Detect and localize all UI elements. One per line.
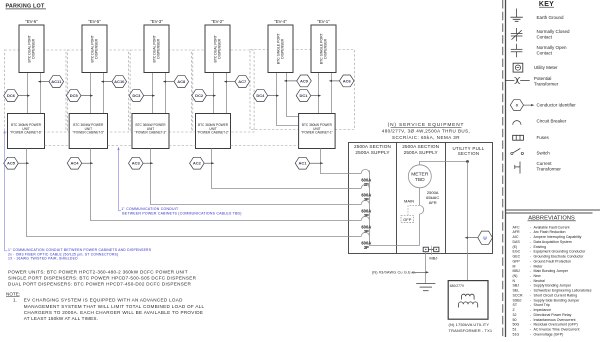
transformer TX1 enclosure bbox=[448, 281, 488, 320]
svg-text:GFP: GFP bbox=[403, 217, 412, 222]
svg-text:Current: Current bbox=[537, 161, 553, 166]
svg-text:2500A SUPPLY: 2500A SUPPLY bbox=[355, 150, 390, 155]
svg-text:2x - OM3 FIBER OPTIC CABLE (50: 2x - OM3 FIBER OPTIC CABLE (50/125 μm, S… bbox=[8, 252, 118, 256]
svg-text:AC3: AC3 bbox=[132, 161, 141, 166]
switchboard section divider 2 bbox=[445, 143, 447, 254]
svg-text:DUAL PORT DISPENSERS: BTC POWE: DUAL PORT DISPENSERS: BTC POWER HPCD7-45… bbox=[8, 282, 191, 287]
svg-text:Arc Flash Reduction: Arc Flash Reduction bbox=[534, 230, 566, 234]
svg-text:Ground Fault Protection: Ground Fault Protection bbox=[534, 259, 572, 263]
svg-text:Data Acquisition System: Data Acquisition System bbox=[534, 240, 572, 244]
power unit cabinet 6 bbox=[8, 114, 45, 149]
svg-text:Normally Closed: Normally Closed bbox=[537, 29, 571, 34]
key normally open contact bbox=[516, 44, 518, 49]
svg-text:SCCR: SCCR bbox=[513, 294, 523, 298]
svg-text:AC1: AC1 bbox=[298, 161, 307, 166]
svg-text:DC5: DC5 bbox=[70, 93, 79, 98]
svg-text:EGC: EGC bbox=[513, 250, 521, 254]
wire feeder to service bbox=[151, 149, 349, 205]
svg-text:DC4: DC4 bbox=[256, 93, 265, 98]
svg-text:"EV-6": "EV-6" bbox=[25, 19, 38, 24]
svg-text:AC5: AC5 bbox=[7, 161, 16, 166]
KEY panel border bbox=[505, 0, 507, 337]
svg-text:SCCR/AIC: 65kA, NEMA 3R: SCCR/AIC: 65kA, NEMA 3R bbox=[392, 135, 460, 140]
svg-text:DISPENSER: DISPENSER bbox=[218, 38, 222, 58]
ground bus square bbox=[434, 247, 439, 252]
communication conduit riser 1 (blue) bbox=[4, 133, 6, 250]
svg-text:AC9: AC9 bbox=[300, 78, 309, 83]
power unit cabinet 2 bbox=[196, 114, 231, 149]
dispenser "EV-5" (BTC dual port) bbox=[82, 25, 107, 73]
svg-text:TBD: TBD bbox=[415, 177, 425, 183]
node AC1 conductor identifier bbox=[295, 157, 310, 169]
svg-text:Grounding Electrode Conductor: Grounding Electrode Conductor bbox=[534, 255, 585, 259]
svg-text:"POWER CABINET-5": "POWER CABINET-5" bbox=[72, 131, 104, 135]
svg-text:EV CHARGING SYSTEM IS EQUIPPED: EV CHARGING SYSTEM IS EQUIPPED WITH AN A… bbox=[24, 298, 183, 303]
svg-text:AFR: AFR bbox=[513, 230, 521, 234]
svg-text:Available Fault Current: Available Fault Current bbox=[534, 225, 570, 229]
svg-text:SBJ: SBJ bbox=[513, 284, 520, 288]
node AC7 conductor identifier bbox=[235, 76, 250, 88]
svg-text:Earth Ground: Earth Ground bbox=[537, 15, 565, 20]
svg-text:"EV-4": "EV-4" bbox=[274, 19, 287, 24]
svg-text:"EV-3": "EV-3" bbox=[150, 19, 163, 24]
power unit cabinet 3 bbox=[132, 114, 169, 149]
svg-text:Utility Meter: Utility Meter bbox=[534, 65, 558, 70]
svg-text:50: 50 bbox=[513, 318, 517, 322]
node junction dot bbox=[466, 160, 469, 163]
wire main breaker down bbox=[419, 214, 421, 246]
key conductor identifier bbox=[510, 100, 523, 111]
svg-text:2500A SECTION: 2500A SECTION bbox=[354, 144, 391, 149]
svg-text:1" COMMUNICATION CONDUIT: 1" COMMUNICATION CONDUIT bbox=[121, 207, 179, 211]
svg-text:Fuses: Fuses bbox=[537, 135, 550, 140]
node DC1 conductor identifier bbox=[296, 90, 311, 102]
neutral bus square bbox=[423, 247, 428, 252]
wire feeder to service bbox=[212, 149, 349, 189]
circuit breaker 600A 3P bbox=[348, 188, 361, 190]
communication conduit riser 2 (blue) bbox=[118, 150, 120, 211]
svg-text:Conductor Identifier: Conductor Identifier bbox=[537, 103, 577, 108]
wire communication conduit between cabinets (dashed) bbox=[45, 145, 70, 147]
svg-text:Potential: Potential bbox=[534, 76, 552, 81]
power unit cabinet 5 bbox=[69, 114, 107, 149]
wire feeder cabinet 1 to service bbox=[321, 149, 349, 174]
svg-text:Shunt Trip: Shunt Trip bbox=[534, 303, 550, 307]
svg-text:DISPENSER: DISPENSER bbox=[95, 38, 99, 58]
ground fault protection GFP bbox=[401, 215, 414, 222]
equipment pad boundary column 3 bbox=[130, 50, 191, 132]
key utility meter bbox=[513, 63, 523, 72]
node DC3 conductor identifier bbox=[129, 90, 144, 102]
node AC4 conductor identifier bbox=[67, 157, 82, 169]
ABBREVIATIONS panel border bbox=[506, 212, 593, 214]
svg-text:Circuit Breaker: Circuit Breaker bbox=[537, 118, 567, 123]
svg-text:Transformer: Transformer bbox=[537, 167, 562, 172]
wire dispenser "EV-2" DC conductor bbox=[213, 73, 215, 114]
wire dispenser "EV-6" DC conductor bbox=[27, 73, 29, 114]
svg-text:AC7: AC7 bbox=[238, 79, 247, 84]
svg-text:AC11: AC11 bbox=[51, 79, 62, 84]
equipment pad boundary column 4 bbox=[193, 50, 254, 132]
svg-text:Equipment Grounding Conductor: Equipment Grounding Conductor bbox=[534, 250, 587, 254]
wire EV-4 DC conductor bbox=[277, 73, 299, 126]
svg-text:"POWER CABINET-6": "POWER CABINET-6" bbox=[10, 131, 42, 135]
key earth ground bbox=[516, 9, 518, 18]
svg-text:New: New bbox=[534, 274, 542, 278]
switchboard enclosure bbox=[349, 143, 493, 254]
wire dispenser "EV-5" AC conductor bbox=[103, 73, 105, 114]
earth ground bbox=[416, 283, 435, 285]
svg-text:DAS: DAS bbox=[513, 240, 521, 244]
svg-text:UTILITY PULL: UTILITY PULL bbox=[452, 146, 484, 151]
svg-text:480/277V, 3Ø 4W,2500A THRU BUS: 480/277V, 3Ø 4W,2500A THRU BUS, bbox=[382, 129, 471, 134]
svg-text:AIC: AIC bbox=[513, 235, 519, 239]
wire dispenser "EV-5" DC conductor bbox=[90, 73, 92, 114]
dispenser "EV-1" (BTC single port) bbox=[311, 25, 336, 73]
node AC9 conductor identifier bbox=[297, 75, 312, 87]
svg-text:SEL: SEL bbox=[513, 289, 520, 293]
svg-text:Residual Overcurrent (GFP): Residual Overcurrent (GFP) bbox=[534, 323, 578, 327]
svg-text:Overvoltage (GFP): Overvoltage (GFP) bbox=[534, 332, 564, 336]
svg-text:METER: METER bbox=[411, 171, 429, 177]
svg-text:3P: 3P bbox=[364, 245, 369, 250]
svg-text:DISPENSER: DISPENSER bbox=[324, 38, 328, 58]
svg-text:AFR: AFR bbox=[429, 200, 437, 205]
key normally closed contact bbox=[516, 28, 518, 33]
wire meter riser bbox=[420, 162, 468, 165]
svg-text:MBJ: MBJ bbox=[513, 269, 520, 273]
node U utility conductor identifier bbox=[478, 231, 493, 244]
node AC6 conductor identifier bbox=[339, 75, 354, 87]
transformer TX1 windings bbox=[462, 294, 475, 299]
circuit breaker 600A 3P bbox=[348, 173, 361, 175]
node AC8 conductor identifier bbox=[174, 76, 189, 88]
power unit cabinet 1 bbox=[299, 114, 336, 149]
switchboard section divider 1 bbox=[396, 143, 398, 254]
svg-text:DISPENSER: DISPENSER bbox=[157, 38, 161, 58]
key fuses bbox=[513, 135, 524, 140]
svg-text:AC4: AC4 bbox=[70, 161, 79, 166]
svg-text:"POWER CABINET-1": "POWER CABINET-1" bbox=[301, 131, 333, 135]
svg-text:(N) 1750kVA UTILITY: (N) 1750kVA UTILITY bbox=[449, 322, 490, 327]
svg-text:"EV-2": "EV-2" bbox=[211, 19, 224, 24]
svg-text:(N) #3/0AWG Cu G.E.C.: (N) #3/0AWG Cu G.E.C. bbox=[372, 271, 416, 275]
wire EV-1 AC conductor bbox=[331, 73, 333, 114]
svg-text:AC Inverse Time Overcurrent: AC Inverse Time Overcurrent bbox=[534, 328, 580, 332]
svg-text:SSBJ: SSBJ bbox=[513, 298, 522, 302]
svg-text:2500A SUPPLY: 2500A SUPPLY bbox=[404, 150, 439, 155]
svg-text:(E): (E) bbox=[513, 245, 518, 249]
svg-text:NOTE:: NOTE: bbox=[6, 291, 20, 296]
wire meter to main breaker bbox=[419, 188, 421, 206]
svg-text:1X - 16AWG TWISTED PAIR, SHIEL: 1X - 16AWG TWISTED PAIR, SHIELDED bbox=[8, 257, 78, 261]
svg-text:Ampere Interrupting Capability: Ampere Interrupting Capability bbox=[534, 235, 582, 239]
svg-text:Instantaneous Overcurrent: Instantaneous Overcurrent bbox=[534, 318, 576, 322]
svg-text:DC3: DC3 bbox=[132, 93, 141, 98]
svg-text:Normally Open: Normally Open bbox=[537, 45, 568, 50]
bus section 1 vertical bbox=[370, 171, 420, 246]
wire dispenser "EV-6" AC conductor bbox=[40, 73, 42, 114]
svg-text:2500A SECTION: 2500A SECTION bbox=[402, 144, 439, 149]
node DC5 conductor identifier bbox=[66, 90, 81, 102]
dispenser "EV-2" (BTC dual port) bbox=[205, 25, 230, 73]
svg-text:GFP: GFP bbox=[513, 259, 521, 263]
equipment pad boundary column 1 bbox=[5, 50, 66, 132]
svg-text:DC6: DC6 bbox=[7, 93, 16, 98]
svg-text:MBJ: MBJ bbox=[429, 256, 437, 261]
circuit breaker MAIN 2500A bbox=[420, 206, 424, 215]
key current transformer bbox=[519, 162, 521, 174]
circuit breaker 600A 3P bbox=[348, 220, 361, 222]
property line (dashed) bbox=[502, 0, 504, 337]
key potential transformer bbox=[506, 80, 515, 82]
main bonding jumper link bbox=[428, 248, 433, 250]
svg-text:TRANSFORMER - TX1: TRANSFORMER - TX1 bbox=[449, 328, 493, 333]
svg-text:AC2: AC2 bbox=[193, 161, 202, 166]
svg-text:1.: 1. bbox=[13, 298, 17, 303]
svg-text:MANAGEMENT SYSTEM THAT WILL LI: MANAGEMENT SYSTEM THAT WILL LIMIT TOTAL … bbox=[24, 304, 205, 309]
wire dispenser "EV-2" AC conductor bbox=[226, 73, 228, 114]
svg-text:51G: 51G bbox=[513, 332, 520, 336]
wire dispenser "EV-3" AC conductor bbox=[165, 73, 167, 114]
wire EV-1 DC conductor bbox=[318, 73, 320, 114]
svg-text:Main Bonding Jumper: Main Bonding Jumper bbox=[534, 269, 569, 273]
node AC2 conductor identifier bbox=[190, 157, 205, 169]
svg-text:SECTION: SECTION bbox=[458, 151, 480, 156]
svg-text:DC1: DC1 bbox=[299, 93, 308, 98]
svg-text:POWER UNITS: BTC POWER HPCT2-3: POWER UNITS: BTC POWER HPCT2-360-480-2 3… bbox=[8, 269, 188, 274]
svg-text:AT LEAST 150kW AT ALL TIMES.: AT LEAST 150kW AT ALL TIMES. bbox=[24, 316, 98, 321]
node AC11 conductor identifier bbox=[49, 76, 64, 88]
svg-text:MAIN: MAIN bbox=[404, 199, 414, 204]
svg-text:DC2: DC2 bbox=[195, 93, 204, 98]
dispenser "EV-4" (BTC single port) bbox=[268, 25, 293, 73]
node DC6 conductor identifier bbox=[4, 90, 19, 102]
svg-text:AC6: AC6 bbox=[343, 78, 352, 83]
svg-text:N: N bbox=[513, 279, 516, 283]
node AC10 conductor identifier bbox=[112, 76, 127, 88]
svg-text:Transformer: Transformer bbox=[534, 81, 559, 86]
svg-text:Contact: Contact bbox=[537, 35, 553, 40]
wire utility drop bbox=[467, 162, 469, 281]
svg-text:1" COMMUNICATION CONDUIT BETWE: 1" COMMUNICATION CONDUIT BETWEEN POWER C… bbox=[8, 248, 152, 252]
wire feeder to service bbox=[27, 149, 349, 237]
utility meter METER TBD bbox=[408, 165, 431, 188]
key switch bbox=[511, 152, 513, 154]
svg-text:AFC: AFC bbox=[513, 225, 521, 229]
svg-text:SINGLE PORT DISPENSERS: BTC PO: SINGLE PORT DISPENSERS: BTC POWER HPCD7-… bbox=[8, 276, 197, 281]
svg-text:"EV-1": "EV-1" bbox=[317, 19, 330, 24]
svg-text:51: 51 bbox=[513, 328, 517, 332]
wire dispenser "EV-3" DC conductor bbox=[152, 73, 154, 114]
svg-text:480/277V: 480/277V bbox=[450, 284, 465, 288]
svg-text:"POWER CABINET-2": "POWER CABINET-2" bbox=[197, 131, 229, 135]
svg-text:GEC: GEC bbox=[513, 255, 521, 259]
svg-text:32: 32 bbox=[513, 313, 517, 317]
wire feeder to service bbox=[91, 149, 349, 221]
node AC3 conductor identifier bbox=[129, 157, 144, 169]
dispenser "EV-6" (BTC dual port) bbox=[19, 25, 44, 73]
svg-text:DISPENSER: DISPENSER bbox=[32, 38, 36, 58]
svg-text:Meter: Meter bbox=[534, 264, 544, 268]
svg-text:Contact: Contact bbox=[537, 50, 553, 55]
svg-text:AC10: AC10 bbox=[114, 79, 125, 84]
svg-text:DISPENSER: DISPENSER bbox=[281, 38, 285, 58]
svg-text:Impedance: Impedance bbox=[534, 308, 552, 312]
wire EV-4 AC conductor bbox=[287, 73, 299, 117]
svg-text:Switch: Switch bbox=[537, 151, 551, 156]
circuit breaker 600A 3P bbox=[348, 204, 361, 206]
node DC2 conductor identifier bbox=[192, 90, 207, 102]
svg-text:Schweitzer Engineering Laborat: Schweitzer Engineering Laboratories bbox=[534, 289, 592, 293]
equipment pad boundary column 2 bbox=[67, 50, 128, 132]
svg-text:M: M bbox=[513, 264, 516, 268]
svg-text:(N): (N) bbox=[513, 274, 518, 278]
svg-text:Supply Bonding Jumper: Supply Bonding Jumper bbox=[534, 284, 572, 288]
svg-text:Directional Power Relay: Directional Power Relay bbox=[534, 313, 572, 317]
svg-text:AC8: AC8 bbox=[177, 79, 186, 84]
svg-text:50G: 50G bbox=[513, 323, 520, 327]
circuit breaker 600A 3P bbox=[348, 236, 361, 238]
key circuit breaker bbox=[513, 121, 521, 125]
svg-text:Existing: Existing bbox=[534, 245, 546, 249]
dispenser "EV-3" (BTC dual port) bbox=[144, 25, 169, 73]
svg-text:"POWER CABINET-3": "POWER CABINET-3" bbox=[135, 131, 167, 135]
svg-text:Supply-Side Bonding Jumper: Supply-Side Bonding Jumper bbox=[534, 298, 581, 302]
equipment pad boundary single-port group bbox=[250, 50, 355, 130]
node DC4 conductor identifier bbox=[253, 90, 268, 102]
svg-text:BETWEEN POWER CABINETS (COMMUN: BETWEEN POWER CABINETS (COMMUNICATIONS C… bbox=[122, 211, 241, 215]
svg-text:Neutral: Neutral bbox=[534, 279, 546, 283]
svg-text:"EV-5": "EV-5" bbox=[88, 19, 101, 24]
wire grounding electrode conductor bbox=[425, 252, 427, 284]
node AC5 conductor identifier bbox=[4, 157, 19, 169]
svg-text:Short Circuit Current Rating: Short Circuit Current Rating bbox=[534, 294, 578, 298]
svg-text:CHARGERS TO 2000A. EACH CHARG: CHARGERS TO 2000A. EACH CHARGER WILL BE … bbox=[24, 310, 203, 315]
